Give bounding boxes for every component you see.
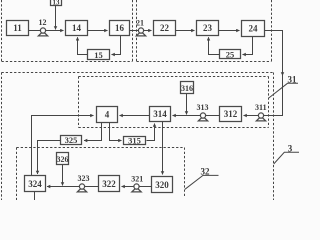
dashed enclosure 2 xyxy=(137,0,272,62)
wire 13 down xyxy=(55,6,57,30)
box 326 xyxy=(57,153,69,165)
svg-text:324: 324 xyxy=(28,179,42,189)
label 3 leader xyxy=(274,143,299,164)
svg-text:325: 325 xyxy=(65,135,78,145)
box 325 xyxy=(61,135,82,145)
svg-text:313: 313 xyxy=(197,103,209,112)
box 314 xyxy=(150,107,171,122)
pump 321 xyxy=(132,184,141,192)
wire 324 up to 4 xyxy=(32,116,94,176)
wire right vertical to 312 xyxy=(244,76,283,116)
box 23 xyxy=(197,21,219,36)
wire 22 to 23 xyxy=(176,30,195,32)
pump 21 xyxy=(136,28,145,36)
svg-text:316: 316 xyxy=(181,84,193,93)
wire 315 to 314 xyxy=(147,124,155,141)
wire 23 to 24 xyxy=(219,30,240,32)
wire 314 to 4 xyxy=(120,115,150,117)
wire 4 down to 325 xyxy=(84,123,102,141)
svg-text:23: 23 xyxy=(203,23,213,33)
wire 16 down to 15 xyxy=(112,36,121,55)
svg-text:32: 32 xyxy=(201,167,211,177)
svg-text:311: 311 xyxy=(255,103,267,112)
svg-text:4: 4 xyxy=(105,110,110,120)
svg-text:25: 25 xyxy=(226,49,235,59)
pump 311 xyxy=(256,113,265,121)
wire 326 down xyxy=(62,165,64,186)
svg-text:321: 321 xyxy=(131,174,143,183)
svg-text:11: 11 xyxy=(13,23,22,33)
label 31 leader xyxy=(269,74,298,98)
box 324 xyxy=(25,176,46,192)
wire 316 down xyxy=(186,94,188,115)
svg-text:3: 3 xyxy=(288,143,293,153)
pump 313 xyxy=(198,113,207,121)
box 316 xyxy=(181,82,194,94)
svg-text:314: 314 xyxy=(153,109,167,119)
box 14 xyxy=(66,21,88,36)
box 22 xyxy=(154,21,176,36)
pump 12 xyxy=(38,28,47,36)
dashed box 32 xyxy=(17,148,185,201)
wire 25 to 23 xyxy=(209,37,220,54)
wire 11 to 14 xyxy=(29,30,64,32)
wire 24 to right vertical xyxy=(265,31,283,76)
wire 24 down to 25 xyxy=(243,37,253,55)
svg-text:13: 13 xyxy=(53,0,61,7)
wire 324 down xyxy=(34,192,36,201)
svg-text:16: 16 xyxy=(115,23,125,33)
wire 312 to 314 xyxy=(173,115,220,117)
box 322 xyxy=(99,176,120,192)
box 15 xyxy=(88,50,110,60)
wire 320 to 322 xyxy=(122,186,152,188)
box 11 xyxy=(7,21,29,36)
svg-text:315: 315 xyxy=(128,136,141,146)
wire 14 to 16 xyxy=(88,30,108,32)
box 315 xyxy=(124,136,146,146)
wire 314 down to 320 xyxy=(162,122,164,175)
svg-text:22: 22 xyxy=(160,23,170,33)
wire 16 to 22 xyxy=(130,30,152,32)
label 32 leader xyxy=(185,167,219,190)
dashed enclosure 1 xyxy=(2,0,133,62)
box 13 xyxy=(51,0,62,7)
svg-text:326: 326 xyxy=(57,155,69,164)
box 4 xyxy=(97,107,118,123)
wire 15 to 14 xyxy=(78,37,88,54)
dashed box 3 xyxy=(2,73,274,201)
svg-text:21: 21 xyxy=(136,18,144,27)
box 16 xyxy=(110,21,130,36)
svg-text:322: 322 xyxy=(102,179,116,189)
wire 325 to 324 xyxy=(38,141,61,175)
dashed box 31 xyxy=(79,77,269,128)
svg-text:323: 323 xyxy=(78,174,90,183)
svg-text:312: 312 xyxy=(224,109,238,119)
wire 322 to 324 xyxy=(47,186,99,188)
box 25 xyxy=(220,49,241,59)
svg-text:14: 14 xyxy=(72,23,82,33)
box 24 xyxy=(242,21,265,37)
box 312 xyxy=(220,107,242,122)
wire 4 down to 315 xyxy=(110,123,122,141)
svg-text:320: 320 xyxy=(155,180,169,190)
svg-text:15: 15 xyxy=(94,50,103,60)
pump 323 xyxy=(77,184,86,192)
svg-text:24: 24 xyxy=(249,24,259,34)
box 320 xyxy=(152,177,173,193)
svg-text:31: 31 xyxy=(288,74,298,84)
svg-text:12: 12 xyxy=(39,18,47,27)
